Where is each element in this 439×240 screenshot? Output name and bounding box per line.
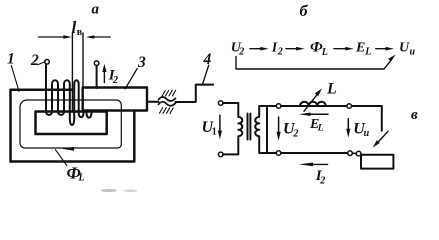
terminal on bottom wire left bbox=[276, 151, 281, 156]
terminal on top wire right bbox=[347, 104, 352, 109]
svg-text:L: L bbox=[321, 47, 328, 58]
svg-text:и: и bbox=[410, 47, 416, 58]
svg-text:L: L bbox=[326, 81, 337, 98]
arrow I2->PhiL bbox=[286, 48, 297, 50]
arrow EL->Ui bbox=[376, 48, 386, 50]
coil winding W (snake) bbox=[46, 65, 92, 125]
core window bbox=[36, 112, 107, 135]
leader 1 bbox=[11, 66, 19, 92]
variable inductor L bbox=[300, 102, 326, 106]
feedback line bbox=[236, 57, 391, 70]
voltage U2 arrow bbox=[278, 117, 280, 132]
flux path Phi_L loop bbox=[20, 100, 121, 148]
transformer secondary bbox=[255, 106, 267, 153]
dimension line right bbox=[94, 36, 111, 38]
armature 3 (movable bar) bbox=[83, 88, 147, 111]
svg-text:4: 4 bbox=[203, 51, 212, 68]
arrow U2->I2 bbox=[250, 48, 261, 50]
leader 3 bbox=[125, 69, 137, 89]
current I2 arrow (up) bbox=[103, 71, 105, 83]
svg-text:3: 3 bbox=[137, 54, 146, 71]
break (wavy) symbol with hatching bbox=[159, 97, 176, 101]
core outer outline bbox=[11, 90, 135, 162]
svg-text:2: 2 bbox=[277, 47, 283, 58]
air gap edge left bbox=[71, 33, 73, 111]
svg-text:2: 2 bbox=[292, 128, 298, 139]
leader 4 bbox=[203, 65, 209, 84]
label Phi_L (flux) bbox=[55, 150, 66, 166]
terminal at resistor bbox=[356, 151, 361, 156]
terminal on top wire left bbox=[276, 104, 281, 109]
dimension line left bbox=[39, 36, 64, 38]
wire: loop top bbox=[267, 105, 382, 107]
potentiometer resistor body bbox=[361, 155, 393, 169]
svg-text:1: 1 bbox=[7, 51, 15, 68]
flux arrow bbox=[62, 147, 74, 151]
terminal bottom wire mid bbox=[348, 151, 353, 156]
EMF EL arrow (left) bbox=[309, 113, 328, 115]
faint cut-off caption remnants bbox=[101, 189, 117, 192]
svg-text:E: E bbox=[355, 40, 365, 55]
link rod to lever 4 bbox=[176, 85, 214, 102]
svg-text:L: L bbox=[317, 123, 324, 133]
svg-text:2: 2 bbox=[238, 47, 244, 58]
leader 2 bbox=[38, 62, 45, 65]
svg-text:2: 2 bbox=[30, 52, 39, 69]
svg-text:L: L bbox=[364, 47, 371, 58]
arrow PhiL->EL bbox=[334, 48, 346, 50]
rod from armature bbox=[147, 101, 159, 103]
svg-text:L: L bbox=[78, 173, 85, 184]
voltage Ui arrow bbox=[347, 119, 349, 130]
input terminal bottom bbox=[218, 152, 223, 157]
wire: loop left vertical bbox=[266, 106, 268, 153]
svg-text:1: 1 bbox=[212, 127, 217, 138]
svg-text:в: в bbox=[411, 107, 418, 123]
terminal of winding (left) bbox=[45, 60, 50, 65]
transformer core bbox=[247, 114, 249, 140]
input terminal top bbox=[218, 101, 223, 106]
wire: loop right vertical bbox=[381, 106, 383, 131]
svg-text:2: 2 bbox=[112, 75, 118, 86]
svg-text:I: I bbox=[271, 40, 278, 55]
svg-text:а: а bbox=[92, 2, 100, 18]
variability arrow through L bbox=[304, 95, 317, 111]
svg-text:U: U bbox=[399, 40, 410, 55]
svg-text:и: и bbox=[364, 128, 370, 139]
transformer primary bbox=[223, 103, 242, 154]
wire between terminals bbox=[352, 152, 356, 154]
current I2 arrow (left) bbox=[311, 163, 328, 165]
air gap edge right (armature end) bbox=[82, 33, 84, 88]
wire: loop bottom bbox=[267, 152, 348, 154]
svg-text:б: б bbox=[300, 3, 309, 20]
svg-text:2: 2 bbox=[319, 176, 325, 187]
voltage U1 arrow bbox=[219, 115, 221, 131]
wire right lead bbox=[96, 66, 98, 88]
svg-text:в: в bbox=[77, 27, 83, 38]
terminal of winding (right) bbox=[94, 61, 99, 66]
potentiometer wiper arrow bbox=[379, 131, 388, 141]
